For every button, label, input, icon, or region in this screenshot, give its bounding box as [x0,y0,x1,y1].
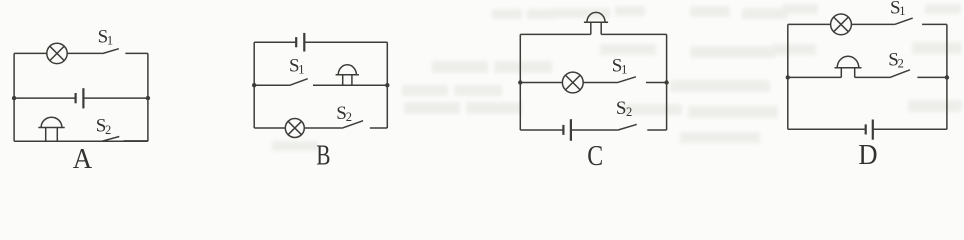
battery cell (circuit A, middle branch) [76,88,84,108]
faint print bleed-through background [272,4,962,151]
node (B, middle-left junction) [252,83,256,87]
svg-text:S: S [616,98,627,119]
wire: D bottom-left segment [788,128,866,130]
wire: middle branch left [520,82,562,84]
wire: B right vertical [386,42,388,128]
wire: D right vertical [946,24,948,129]
switch S2 (circuit A, open blade) [102,137,148,142]
switch S2 (circuit B, open blade) [342,121,387,129]
wire: lamp to switch S1 [583,82,617,84]
svg-text:1: 1 [899,4,905,18]
wire: B top-right segment [304,41,387,43]
wire: B left vertical [253,42,255,128]
electric bell (circuit A, bottom branch) [38,117,64,141]
electric bell (circuit B, middle branch) [336,65,359,85]
wire: C top-right segment [601,33,666,35]
switch S2 (circuit C, open blade) [618,124,667,130]
svg-text:2: 2 [105,123,111,137]
svg-text:2: 2 [626,105,632,119]
wire: D left vertical [787,24,789,129]
lamp (circuit B, bottom branch) [285,119,304,138]
wire: C right vertical [666,34,668,130]
switch S1 (circuit B, open blade) [289,79,387,86]
battery cell (circuit B, top branch) [296,33,304,52]
electric bell (circuit D, middle branch) [835,56,862,77]
wire: B top-left segment [254,41,296,43]
svg-text:1: 1 [298,62,304,76]
node (B, middle-right junction) [385,83,389,87]
wire: middle branch left [788,76,842,78]
wire: bell to switch S2 [855,76,890,78]
wire: middle branch left [14,97,76,99]
svg-text:C: C [587,140,603,172]
lamp (circuit D, top branch) [831,14,852,35]
wire: C top-left segment [520,33,591,35]
node (D, middle-left junction) [786,75,790,79]
wire: A right vertical [147,53,149,141]
svg-text:2: 2 [898,57,904,71]
wire: A left vertical [13,53,15,141]
wire: B bottom-left segment [254,127,285,129]
wire: lamp to switch S1 [851,23,894,25]
wire: A top-left segment [14,52,47,54]
svg-text:1: 1 [107,34,113,48]
svg-text:D: D [858,139,877,171]
node (C, middle-left junction) [518,80,522,84]
wire: lamp to switch S2 [304,127,342,129]
wire: C left vertical [519,34,521,130]
svg-text:2: 2 [346,110,352,124]
battery cell (circuit C, bottom branch) [563,119,571,141]
wire: middle branch to switch [254,84,289,86]
svg-text:B: B [316,140,330,172]
switch S1 (circuit C, open blade) [617,77,667,83]
node (A, middle-left junction) [12,96,16,100]
node (D, middle-right junction) [945,75,949,79]
wire: D top-left segment [788,23,831,25]
battery cell (circuit D, bottom branch) [866,120,873,140]
wire: C bottom-left segment [520,129,563,131]
wire: A bottom [14,140,148,142]
svg-text:A: A [73,143,92,173]
switch S1 (circuit D, open blade) [894,18,947,25]
electric bell (circuit C, on top branch) [584,12,608,34]
switch S2 (circuit D, open blade) [890,70,947,78]
node (C, middle-right junction) [664,80,668,84]
wire: D bottom-right segment [873,128,947,130]
wire: middle branch right [83,97,147,99]
svg-text:1: 1 [621,62,627,76]
switch S1 (circuit A, open blade) [102,49,148,54]
lamp (circuit A, top branch) [47,43,67,63]
lamp (circuit C, middle branch) [562,72,583,93]
wire: battery to switch S2 [571,129,618,131]
node (A, middle-right junction) [146,96,150,100]
wire: lamp to switch S1 [67,52,102,54]
